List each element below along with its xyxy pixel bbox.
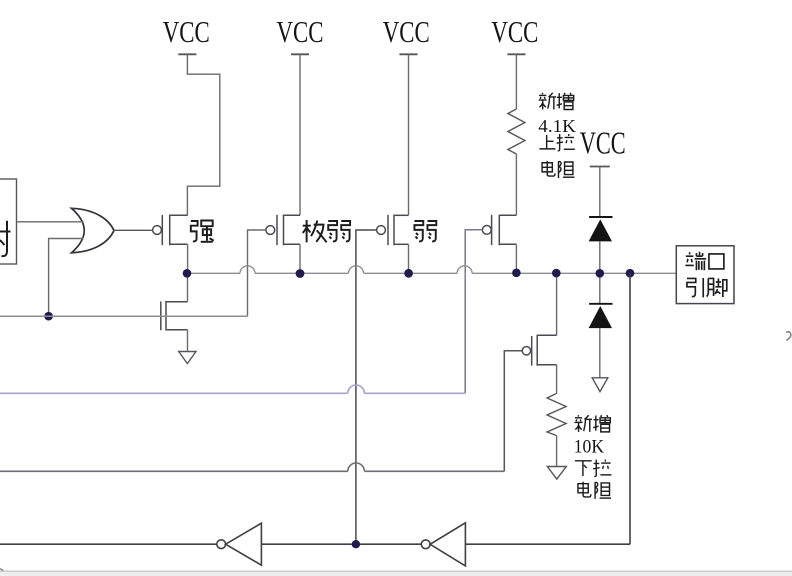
power rail VCC2 T-bar: [291, 53, 309, 55]
wire: Q3 gate riser to bottom line: [356, 230, 377, 544]
label 电阻 (bottom): [578, 482, 611, 499]
svg-text:VCC: VCC: [277, 14, 324, 49]
diode D2 clamp to GND: [589, 304, 613, 328]
label 新增 (bottom): [575, 415, 611, 432]
label 引脚: [687, 278, 727, 297]
wire: VCC1 staircase to Q1 source: [187, 54, 219, 215]
junction dot: feedback riser tap on port pin net: [626, 269, 635, 278]
label 强: [191, 220, 214, 241]
port pin box: [676, 246, 734, 304]
wire: D1 anode to node: [599, 241, 601, 273]
svg-text:VCC: VCC: [491, 14, 538, 49]
junction dot: Q1/Q5 drains on port pin net: [183, 269, 192, 278]
wire: VCC3 stem to Q3 source: [408, 54, 410, 215]
wire: Q5 drain to node: [187, 273, 189, 301]
node line: port pin net: [187, 272, 676, 274]
junction dot on feedback line at x356: [352, 540, 360, 548]
svg-text:VCC: VCC: [163, 14, 210, 49]
svg-text:VCC: VCC: [580, 125, 626, 161]
wire: OR output to PMOS Q1 gate bubble: [114, 229, 152, 231]
wire: D2 anode to ground arrow: [599, 328, 601, 378]
bottom gray band: [0, 569, 792, 576]
power rail VCC1 T-bar: [178, 53, 196, 55]
pmos Q4 pull-up via 4.1K: [482, 215, 516, 246]
label 弱: [414, 221, 436, 241]
wire: Q2 gate riser from line1: [248, 230, 266, 316]
wire: Q1 drain to node: [187, 244, 189, 273]
ground symbol below Q5: [179, 352, 196, 364]
wire: resistor R1 to Q4 source: [515, 154, 517, 215]
label 下拉: [575, 460, 611, 477]
label 新增 (top): [539, 93, 574, 110]
nmos Q5 output pull-down: [161, 301, 188, 331]
node: junction dot on line1 at x=48.6: [44, 312, 53, 321]
small cursor mark at right edge: [786, 332, 791, 341]
wire line1: input/gate net: [0, 315, 248, 317]
wire hop: node line over riser x356: [349, 266, 364, 274]
wire: resistor R2 to ground: [556, 436, 558, 467]
junction dot: Q4 drain on port pin net: [512, 269, 521, 278]
wire: Q6 source to resistor R2: [556, 365, 558, 394]
wire: OR gate input B riser: [49, 239, 84, 317]
inverter U3 (right): [421, 523, 465, 566]
pmos Q3 weak driver: [377, 215, 409, 246]
wire: Q4 gate riser from line2: [465, 230, 482, 393]
wire line2: pull-up control net (light): [0, 392, 465, 394]
ground symbol below D2: [592, 378, 608, 392]
label 电阻 (top): [542, 161, 574, 178]
wire hop: line2 over riser x356: [348, 385, 365, 393]
power rail VCC5 T-bar: [590, 166, 610, 168]
pmos Q2 very-weak driver: [266, 215, 300, 246]
label 上拉: [539, 134, 574, 151]
junction dot: Q3 drain on port pin net: [404, 269, 413, 278]
resistor R1 4.1K zigzag: [508, 109, 525, 154]
wire: node riser to bottom feedback line: [629, 273, 631, 544]
svg-text:4.1K: 4.1K: [538, 116, 576, 136]
resistor R2 10K zigzag: [547, 393, 566, 435]
ground symbol below R2: [547, 467, 566, 480]
wire: VCC2 stem to Q2 source: [299, 54, 301, 215]
diode D1 clamp to VCC: [589, 217, 613, 241]
wire: Q4 drain to node: [515, 244, 517, 273]
wire hop: line3 over riser x356: [348, 463, 365, 471]
wire: box to OR gate input A: [17, 221, 84, 223]
wire: VCC5 to diode D1: [599, 167, 601, 218]
junction dot: Q2 drain on port pin net: [296, 269, 305, 278]
wire: riser from line3 to Q6 gate: [504, 351, 522, 472]
svg-text:VCC: VCC: [383, 14, 430, 49]
wire hop: node line over riser x464.6: [457, 266, 472, 274]
wire: Q3 drain to node: [408, 244, 410, 273]
wire: node to diode D2: [599, 273, 601, 304]
label 极弱: [303, 220, 350, 242]
partial character 时 inside input box: [0, 221, 11, 258]
junction dot: diode clamp tap on port pin net: [596, 269, 605, 278]
wire: Q5 source to ground: [187, 330, 189, 352]
wire line3: pull-down control net: [0, 470, 504, 472]
pmos Q1 strong driver: [153, 215, 188, 246]
wire: VCC4 stem to resistor R1: [515, 54, 517, 109]
bottom feedback line with inverters: [0, 543, 630, 545]
or-gate U1: [72, 208, 115, 253]
input box (clipped at left edge): [0, 179, 17, 264]
wire: Q6 drain to node: [556, 273, 558, 335]
power rail VCC3 T-bar: [399, 53, 417, 55]
label 端口: [685, 252, 723, 270]
wire: Q2 drain to node: [299, 244, 301, 273]
wire hop: node line over riser x247.5: [240, 266, 255, 274]
svg-text:10K: 10K: [574, 438, 605, 458]
power rail VCC4 T-bar: [507, 53, 525, 55]
junction dot: Q6 drain on port pin net: [552, 269, 561, 278]
inverter U2 (left): [217, 523, 262, 565]
nmos Q6 pull-down with 10K: [522, 335, 556, 366]
